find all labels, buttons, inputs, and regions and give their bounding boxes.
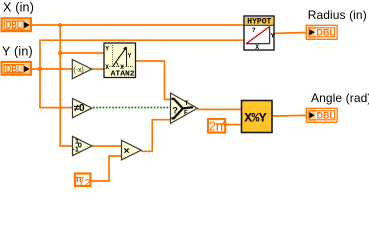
svg-text:X: X [255,44,259,51]
junction dot on Y wire [38,67,42,71]
svg-text:F: F [184,110,188,117]
svg-text:?: ? [252,27,256,34]
negate function (-x) [72,60,91,79]
select function [171,93,198,124]
svg-text:T: T [185,100,189,107]
svg-text:X%Y: X%Y [244,110,266,125]
wire: boolean from not-equal-0 to Select s input (green dashed) [93,107,171,109]
ATAN2 function [104,43,136,79]
svg-text:Y: Y [105,46,109,53]
svg-text:Y: Y [271,32,275,39]
wire: negate output to ATAN2 x input [92,68,104,70]
svg-text:Y (in): Y (in) [2,45,33,59]
wire: HYPOT output to Radius indicator [274,32,306,35]
svg-text:Angle (rad): Angle (rad) [311,91,369,105]
svg-text:DBL: DBL [6,63,22,75]
control terminal Y (in) DBL [2,62,31,75]
wire: X branch to ATAN2 y input [60,52,104,54]
wire: ATAN2 output to Select t input [136,61,171,100]
indicator terminal Radius DBL [306,25,337,39]
control terminal X (in) DBL [2,18,31,31]
junction dot X to ATAN2 branch [58,51,62,55]
wire: pi/2 constant to Multiply input [92,156,122,181]
X%Y modulo subVI [242,101,273,133]
svg-text:DBL: DBL [317,28,336,38]
wire: 2pi constant to X%Y input [225,124,241,126]
2pi constant [208,119,225,133]
svg-text:X (in): X (in) [3,1,34,15]
svg-text:Radius (in): Radius (in) [308,8,367,22]
wire: X (in) main horizontal to HYPOT x input [31,24,244,26]
svg-text:ATAN2: ATAN2 [111,71,136,79]
wire: X%Y output to Angle indicator [273,114,307,117]
svg-text:-1: -1 [72,144,79,153]
svg-text:Y: Y [128,53,132,60]
wire: Y branch up to HYPOT y input and down to not-equal-0 input [40,40,244,107]
svg-text:HYPOT: HYPOT [247,18,271,27]
not-equal-to-0 function [73,99,93,118]
svg-text:X: X [105,64,109,71]
wire: Sign output to Multiply input [92,145,122,147]
wire: Select output to X%Y input [197,108,241,110]
svg-text:≠0: ≠0 [74,103,85,114]
svg-text:?: ? [172,105,178,115]
svg-text:DBL: DBL [6,20,22,32]
multiply function [122,140,142,160]
svg-text:2: 2 [84,178,90,190]
svg-text:2: 2 [209,119,216,133]
indicator terminal Angle DBL [306,108,337,122]
wire: Y (in) main to negate input [31,68,73,70]
sign function [72,136,92,155]
svg-text:DBL: DBL [317,111,336,121]
HYPOT function [244,16,275,51]
pi/2 constant [75,174,91,190]
junction dot on X wire [58,23,62,27]
svg-text:(-x): (-x) [73,67,84,74]
svg-text:×: × [124,145,130,157]
wire: X vertical branch down to Sign input [60,24,72,146]
wire: Multiply output to Select f input [141,120,170,152]
